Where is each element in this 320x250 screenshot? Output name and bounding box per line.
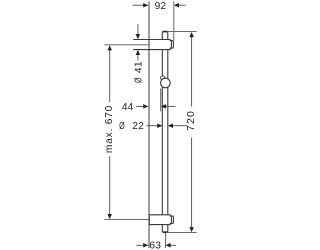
svg-text:92: 92 bbox=[155, 1, 167, 12]
svg-text:Ø: Ø bbox=[119, 120, 125, 132]
svg-text:Ø: Ø bbox=[132, 77, 144, 83]
svg-text:720: 720 bbox=[185, 110, 197, 131]
svg-text:63: 63 bbox=[149, 240, 161, 250]
svg-text:22: 22 bbox=[132, 121, 144, 132]
svg-text:max. 670: max. 670 bbox=[104, 105, 115, 153]
svg-text:44: 44 bbox=[122, 102, 134, 113]
svg-text:41: 41 bbox=[133, 61, 144, 73]
